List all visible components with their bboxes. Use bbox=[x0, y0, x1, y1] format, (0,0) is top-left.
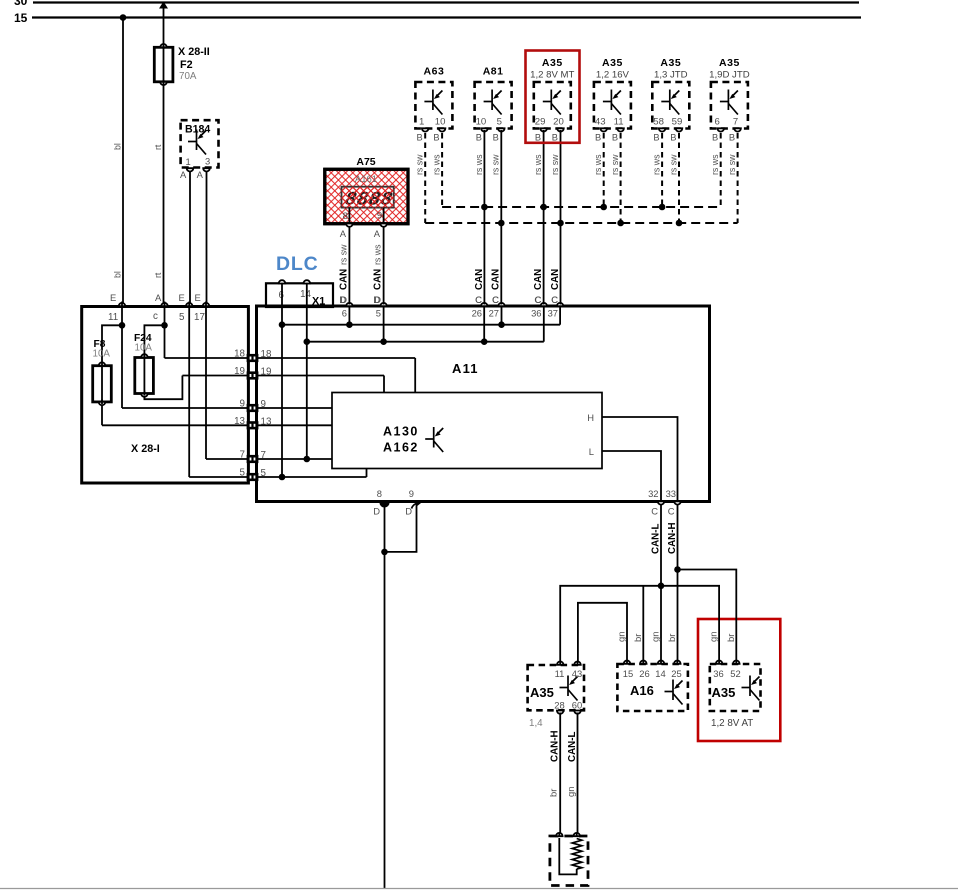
svg-text:1: 1 bbox=[419, 117, 424, 128]
svg-text:rs sw: rs sw bbox=[338, 244, 348, 265]
svg-text:bl: bl bbox=[113, 271, 123, 278]
svg-text:B: B bbox=[712, 133, 718, 143]
svg-text:1,2 16V: 1,2 16V bbox=[596, 70, 630, 81]
svg-text:A: A bbox=[155, 292, 162, 303]
svg-text:CAN: CAN bbox=[474, 269, 485, 290]
svg-text:DLC: DLC bbox=[276, 253, 318, 275]
svg-text:9: 9 bbox=[261, 399, 266, 410]
svg-text:58: 58 bbox=[653, 117, 664, 128]
svg-text:3: 3 bbox=[205, 156, 210, 167]
svg-text:10A: 10A bbox=[135, 343, 153, 354]
svg-text:rs sw: rs sw bbox=[727, 154, 737, 175]
svg-text:11: 11 bbox=[108, 312, 118, 323]
svg-text:X 28-I: X 28-I bbox=[131, 443, 160, 455]
svg-text:59: 59 bbox=[672, 117, 683, 128]
svg-text:7: 7 bbox=[733, 117, 738, 128]
svg-text:CAN-H: CAN-H bbox=[550, 730, 561, 762]
svg-text:28: 28 bbox=[554, 700, 564, 711]
svg-text:9: 9 bbox=[409, 488, 414, 499]
svg-text:D: D bbox=[339, 294, 346, 305]
svg-text:33: 33 bbox=[666, 488, 676, 499]
svg-text:15: 15 bbox=[14, 11, 28, 25]
svg-text:rs ws: rs ws bbox=[474, 154, 484, 175]
svg-text:A: A bbox=[180, 169, 187, 180]
svg-text:A35: A35 bbox=[602, 57, 623, 69]
svg-text:29: 29 bbox=[535, 117, 546, 128]
svg-text:rs ws: rs ws bbox=[710, 154, 720, 175]
svg-text:13: 13 bbox=[234, 416, 245, 427]
svg-text:6: 6 bbox=[342, 308, 347, 319]
svg-text:14: 14 bbox=[300, 289, 311, 300]
svg-text:CAN: CAN bbox=[373, 269, 384, 290]
svg-text:70A: 70A bbox=[179, 71, 197, 82]
svg-text:5: 5 bbox=[240, 468, 246, 479]
svg-text:A11: A11 bbox=[452, 361, 479, 376]
svg-text:rs ws: rs ws bbox=[373, 244, 383, 265]
svg-text:1,4: 1,4 bbox=[529, 718, 543, 729]
svg-text:A75: A75 bbox=[356, 156, 375, 168]
svg-text:B: B bbox=[476, 133, 482, 143]
svg-text:gn: gn bbox=[617, 631, 628, 642]
svg-text:60: 60 bbox=[572, 700, 582, 711]
svg-text:br: br bbox=[667, 634, 678, 642]
svg-text:10A: 10A bbox=[93, 349, 111, 360]
svg-text:rs sw: rs sw bbox=[491, 154, 501, 175]
svg-text:F2: F2 bbox=[180, 59, 193, 71]
svg-text:D: D bbox=[405, 506, 412, 517]
svg-text:A162: A162 bbox=[383, 441, 419, 455]
svg-text:27: 27 bbox=[489, 308, 499, 319]
svg-text:26: 26 bbox=[639, 668, 649, 679]
svg-text:25: 25 bbox=[671, 668, 681, 679]
svg-text:10: 10 bbox=[435, 117, 446, 128]
svg-text:9: 9 bbox=[377, 211, 382, 222]
svg-text:18: 18 bbox=[261, 349, 272, 360]
svg-text:A81: A81 bbox=[483, 66, 504, 78]
svg-text:19: 19 bbox=[261, 367, 272, 378]
svg-text:37: 37 bbox=[548, 308, 558, 319]
svg-text:5: 5 bbox=[261, 468, 267, 479]
svg-text:bl: bl bbox=[113, 143, 123, 150]
svg-text:A35: A35 bbox=[712, 685, 736, 700]
svg-text:B184: B184 bbox=[185, 124, 210, 136]
svg-text:B: B bbox=[612, 133, 618, 143]
svg-text:C: C bbox=[492, 294, 499, 305]
svg-text:B: B bbox=[433, 133, 439, 143]
svg-text:19: 19 bbox=[234, 366, 245, 377]
svg-text:43: 43 bbox=[595, 117, 606, 128]
svg-text:1,2 8V MT: 1,2 8V MT bbox=[530, 70, 574, 81]
svg-text:30: 30 bbox=[14, 0, 28, 8]
svg-text:B: B bbox=[653, 133, 659, 143]
svg-text:A: A bbox=[374, 228, 381, 239]
svg-text:32: 32 bbox=[648, 488, 658, 499]
svg-text:A: A bbox=[340, 228, 347, 239]
svg-text:E: E bbox=[110, 292, 116, 303]
svg-text:A: A bbox=[197, 169, 204, 180]
svg-text:rs sw: rs sw bbox=[668, 154, 678, 175]
svg-text:B: B bbox=[535, 133, 541, 143]
svg-text:1,3 JTD: 1,3 JTD bbox=[654, 70, 688, 81]
svg-text:9: 9 bbox=[240, 399, 245, 410]
svg-text:5: 5 bbox=[179, 312, 185, 323]
svg-text:X1: X1 bbox=[312, 296, 325, 308]
svg-text:A16: A16 bbox=[630, 683, 654, 698]
svg-text:C: C bbox=[551, 294, 558, 305]
svg-text:14: 14 bbox=[655, 668, 665, 679]
svg-text:rs sw: rs sw bbox=[610, 154, 620, 175]
svg-text:A161: A161 bbox=[355, 174, 377, 185]
svg-text:6: 6 bbox=[715, 117, 720, 128]
svg-text:A35: A35 bbox=[660, 57, 681, 69]
svg-text:CAN: CAN bbox=[533, 269, 544, 290]
svg-text:br: br bbox=[633, 634, 644, 642]
svg-text:B: B bbox=[416, 133, 422, 143]
svg-text:1: 1 bbox=[186, 156, 191, 167]
svg-text:10: 10 bbox=[476, 117, 487, 128]
svg-text:gn: gn bbox=[566, 786, 577, 797]
svg-text:c: c bbox=[153, 311, 158, 322]
svg-text:D: D bbox=[373, 294, 380, 305]
svg-text:13: 13 bbox=[261, 416, 272, 427]
svg-text:26: 26 bbox=[472, 308, 482, 319]
svg-text:B: B bbox=[552, 133, 558, 143]
svg-text:CAN: CAN bbox=[338, 269, 349, 290]
svg-text:gn: gn bbox=[651, 631, 662, 642]
svg-text:11: 11 bbox=[614, 117, 624, 128]
svg-text:CAN-L: CAN-L bbox=[651, 524, 662, 554]
svg-text:5: 5 bbox=[376, 308, 381, 319]
svg-text:15: 15 bbox=[623, 668, 633, 679]
svg-text:CAN-L: CAN-L bbox=[567, 732, 578, 762]
svg-text:A130: A130 bbox=[383, 425, 419, 439]
svg-text:X 28-II: X 28-II bbox=[178, 46, 210, 58]
svg-text:18: 18 bbox=[234, 349, 245, 360]
svg-text:rt: rt bbox=[153, 144, 163, 150]
svg-text:11: 11 bbox=[555, 668, 565, 679]
svg-text:rs sw: rs sw bbox=[550, 154, 560, 175]
svg-text:CAN: CAN bbox=[491, 269, 502, 290]
svg-text:br: br bbox=[726, 634, 737, 642]
svg-text:rs ws: rs ws bbox=[652, 154, 662, 175]
svg-text:5: 5 bbox=[497, 117, 502, 128]
svg-text:B: B bbox=[670, 133, 676, 143]
svg-text:36: 36 bbox=[531, 308, 541, 319]
svg-text:1,9D JTD: 1,9D JTD bbox=[709, 70, 750, 81]
svg-text:B: B bbox=[729, 133, 735, 143]
svg-text:8: 8 bbox=[343, 211, 348, 222]
svg-text:br: br bbox=[549, 789, 560, 797]
svg-text:C: C bbox=[651, 506, 658, 517]
svg-text:A35: A35 bbox=[542, 57, 563, 69]
svg-text:E: E bbox=[195, 292, 201, 303]
svg-text:7: 7 bbox=[240, 450, 245, 461]
svg-text:17: 17 bbox=[194, 312, 205, 323]
svg-text:L: L bbox=[589, 446, 594, 457]
svg-text:7: 7 bbox=[261, 450, 266, 461]
svg-text:H: H bbox=[587, 412, 594, 423]
svg-text:CAN-H: CAN-H bbox=[667, 522, 678, 554]
svg-text:B: B bbox=[493, 133, 499, 143]
svg-text:8: 8 bbox=[377, 488, 382, 499]
svg-text:C: C bbox=[534, 294, 541, 305]
svg-text:C: C bbox=[668, 506, 675, 517]
svg-text:CAN: CAN bbox=[550, 269, 561, 290]
svg-text:A35: A35 bbox=[719, 57, 740, 69]
svg-text:rs sw: rs sw bbox=[415, 154, 425, 175]
svg-text:20: 20 bbox=[553, 117, 564, 128]
svg-text:rt: rt bbox=[153, 272, 163, 278]
svg-text:52: 52 bbox=[730, 668, 740, 679]
svg-text:D: D bbox=[373, 506, 380, 517]
svg-text:B: B bbox=[595, 133, 601, 143]
svg-text:E: E bbox=[179, 292, 185, 303]
svg-text:rs ws: rs ws bbox=[533, 154, 543, 175]
svg-text:A63: A63 bbox=[424, 66, 445, 78]
svg-text:gn: gn bbox=[709, 631, 720, 642]
svg-text:36: 36 bbox=[713, 668, 723, 679]
svg-text:C: C bbox=[475, 294, 482, 305]
svg-text:A35: A35 bbox=[530, 685, 554, 700]
svg-text:rs ws: rs ws bbox=[593, 154, 603, 175]
svg-text:1,2 8V AT: 1,2 8V AT bbox=[711, 718, 753, 729]
svg-text:rs ws: rs ws bbox=[432, 154, 442, 175]
